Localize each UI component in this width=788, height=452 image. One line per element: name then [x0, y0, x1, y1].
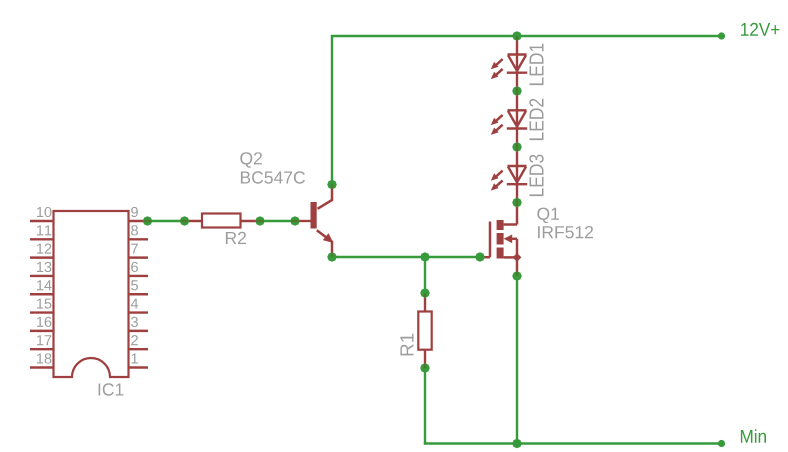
- value BC547C: [241, 171, 305, 183]
- label R2: [226, 232, 246, 244]
- IC1 pin 17 (left): [30, 335, 54, 349]
- IC1 pin 16 (left): [30, 317, 54, 331]
- IC1 pin 12 (left): [30, 244, 54, 258]
- junction at R1 branch: [420, 252, 430, 262]
- LED LED2: [491, 92, 527, 147]
- junction LED2-LED3: [512, 142, 522, 152]
- IC1 pin 11 (left): [30, 225, 54, 239]
- junction at Q2 emitter: [327, 252, 337, 262]
- value IRF512: [538, 226, 593, 238]
- wire IC1 pin9 to R2: [148, 220, 184, 222]
- junction LED3-Q1 drain: [512, 198, 522, 208]
- IC1 pin 5 (right): [129, 280, 149, 294]
- wire Q2 emitter to Q1 gate: [332, 256, 481, 258]
- LED LED1: [491, 37, 527, 92]
- IC1 pin 3 (right): [129, 317, 149, 331]
- IC1 pin 9 (right): [129, 207, 149, 221]
- junction at R2 pin 1: [180, 216, 190, 226]
- MOSFET Q1 (IRF512): [480, 203, 521, 276]
- IC body IC1: [54, 211, 129, 377]
- net label 12V+: [741, 23, 779, 36]
- IC1 pin 10 (left): [30, 207, 54, 221]
- IC1 pin 2 (right): [129, 335, 149, 349]
- terminal dot 12V+: [718, 32, 725, 39]
- junction at Q1 source: [512, 271, 522, 281]
- wire R1 to bottom rail: [424, 368, 426, 445]
- IC1 pin 6 (right): [129, 262, 149, 276]
- junction at R2 pin 2: [255, 216, 265, 226]
- junction at R1 pin 2: [420, 363, 430, 373]
- label LED1: [530, 44, 544, 85]
- IC1 pin 18 (left): [30, 353, 54, 367]
- IC1 pin 8 (right): [129, 225, 149, 239]
- label R1: [400, 334, 413, 356]
- wire bottom rail Min: [424, 442, 722, 444]
- transistor Q2 (NPN BC547C): [295, 187, 334, 255]
- wire R2 to Q2 base: [260, 220, 295, 222]
- label LED2: [529, 99, 543, 140]
- label Q1: [537, 208, 559, 224]
- label IC1: [99, 383, 124, 395]
- wire R1 branch down: [424, 257, 426, 293]
- IC1 pin 4 (right): [129, 299, 149, 313]
- junction at R1 pin 1: [420, 288, 430, 298]
- resistor R2: [184, 214, 260, 228]
- wire Q1 source to bottom rail: [516, 276, 518, 444]
- IC1 pin 15 (left): [30, 299, 54, 313]
- wire Q2 collector up: [331, 36, 333, 185]
- terminal dot Min: [718, 440, 725, 447]
- IC1 pin 1 (right): [129, 354, 149, 368]
- junction at Q1 gate: [475, 252, 485, 262]
- LED LED3: [491, 148, 527, 203]
- junction at Q2 base: [290, 216, 300, 226]
- wire top rail 12V+: [331, 35, 722, 37]
- resistor R1: [418, 293, 431, 368]
- IC1 pin 14 (left): [30, 280, 54, 294]
- junction bottom rail / Q1 source: [512, 439, 522, 449]
- label Q2: [240, 152, 262, 168]
- label LED3: [529, 155, 543, 197]
- junction at IC1 pin 9: [143, 216, 153, 226]
- junction LED1-LED2: [512, 86, 522, 96]
- net label Min: [741, 429, 766, 443]
- IC1 pin 13 (left): [30, 262, 54, 276]
- junction at Q2 collector: [327, 180, 337, 190]
- IC1 pin 7 (right): [129, 244, 149, 258]
- junction top rail / LED1: [512, 31, 522, 41]
